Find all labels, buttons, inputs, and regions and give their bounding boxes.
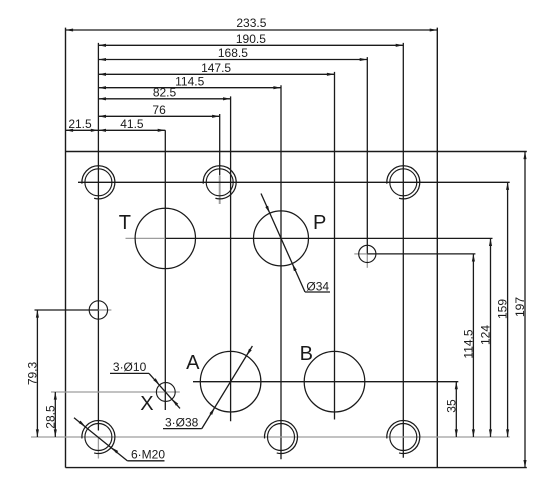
port T circle Ø38 [135,208,195,268]
leader diameter line through P [261,194,305,293]
leader diameter line through X hole [149,373,180,408]
dimension 41.5 line [98,129,165,131]
M20 bolt hole bottom right inner circle [390,424,417,451]
bottom bolt hole row gray center line [31,436,510,438]
svg-text:114.5: 114.5 [175,74,204,88]
svg-text:114.5: 114.5 [461,329,475,358]
X row gray extension to 28.5 dimension [51,391,180,393]
left pilot hole gray center tick [98,309,111,311]
M20 bolt hole bottom left inner circle [85,424,112,451]
dimension 168.5 line [98,59,367,61]
svg-text:190.5: 190.5 [236,32,266,46]
svg-text:T: T [119,212,131,234]
T P row center line gray tail left of T [126,237,166,239]
label 3xØ10 underline [110,372,149,374]
center line gray tail below bottom left bolt hole [97,438,99,459]
port P circle Ø34 [254,211,309,266]
dimension 124 line [490,238,492,437]
dimension 147.5 line [98,73,334,75]
plate top edge with extension to 197 dimension [66,151,527,153]
svg-text:79.3: 79.3 [25,361,39,385]
svg-text:3·Ø10: 3·Ø10 [113,360,147,374]
svg-text:76: 76 [152,103,166,117]
dimension 114.5 line [472,254,474,437]
svg-text:6·M20: 6·M20 [131,448,165,462]
M20 bolt hole top middle outer thread arc [203,166,236,199]
svg-text:82.5: 82.5 [153,86,177,100]
extension line column P (and bottom middle bolt hole) [280,85,282,459]
T P row center line to 124 dimension [165,237,492,239]
dimension 76 line [98,115,219,117]
top bolt hole row center line [78,181,510,183]
right pilot hole gray center tick [354,253,367,255]
extension line column B [334,72,336,420]
center line gray tail below top middle bolt hole [219,176,221,204]
extension line plate right edge column [436,28,438,468]
M20 bolt hole bottom left outer thread arc [82,421,115,454]
svg-text:147.5: 147.5 [201,61,231,75]
label 3xØ38 underline [163,428,202,430]
dimension 35 line [455,382,457,437]
port B circle Ø38 [304,351,365,412]
svg-text:159: 159 [496,299,510,319]
leader diameter line through bottom left M20 [74,418,127,461]
M20 bolt hole top right outer thread arc [387,166,420,199]
dimension 21.5 line [66,129,99,131]
svg-text:3·Ø38: 3·Ø38 [165,415,199,429]
svg-text:A: A [186,352,200,374]
label Ø34 underline [305,291,330,293]
dimension 114.5 line [98,87,281,89]
extension line column 76 (top middle bolt hole) [219,114,221,176]
plate bottom edge with extension to 197 dimension [66,467,527,469]
left pilot hole row extension to 79.3 dimension [35,309,99,311]
A B row center line to 35 dimension [193,381,458,383]
svg-text:21.5: 21.5 [68,117,92,131]
svg-text:Ø34: Ø34 [306,279,329,293]
svg-text:B: B [300,343,313,365]
dimension 79.3 line [36,310,38,437]
extension line column T / X [164,130,166,410]
label 6xM20 underline [127,460,164,462]
svg-text:28.5: 28.5 [43,405,57,429]
leader diameter line through A [202,346,253,429]
M20 bolt hole top middle inner circle [206,169,233,196]
svg-text:35: 35 [444,399,458,413]
M20 bolt hole bottom middle outer thread arc [264,421,297,454]
svg-text:124: 124 [479,325,493,345]
dimension 28.5 line [54,392,56,437]
extension line column right pilot hole [366,57,368,254]
M20 bolt hole top right inner circle [390,169,417,196]
pilot hole left Ø10 [89,301,107,319]
dimension 82.5 line [98,98,230,100]
dimension 190.5 line [98,44,403,46]
M20 bolt hole bottom middle inner circle [268,424,295,451]
M20 bolt hole bottom right outer thread arc [387,421,420,454]
center line gray tail below right pilot hole [366,254,368,268]
svg-text:P: P [313,212,326,234]
svg-text:197: 197 [513,297,527,317]
M20 bolt hole top left outer thread arc [82,166,115,199]
port A circle Ø38 [200,351,261,412]
svg-text:233.5: 233.5 [236,16,266,30]
M20 bolt hole top left inner circle [85,169,112,196]
pilot hole X Ø10 [156,383,175,402]
extension line column x=21.5 (bolt hole column) [97,43,99,431]
svg-text:X: X [140,393,153,415]
dimension 197 line [524,152,526,468]
dimension 233.5 line [66,29,438,31]
extension line plate left edge column [65,28,67,468]
svg-text:41.5: 41.5 [120,117,144,131]
right pilot hole row extension to 114.5 dimension [367,253,475,255]
dimension 159 line [507,182,509,437]
extension line column right bolt holes [402,43,404,458]
extension line column A [230,96,232,421]
pilot hole right Ø10 [359,245,376,262]
svg-text:168.5: 168.5 [218,46,248,60]
